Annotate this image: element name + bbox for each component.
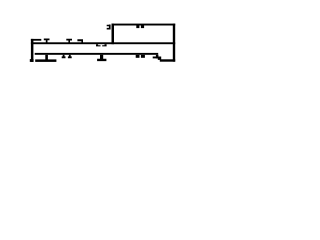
- bottom bar: [35, 59, 56, 62]
- right step stem: [156, 55, 159, 59]
- right shelf: [153, 57, 161, 59]
- sill tooth a1: [62, 55, 66, 58]
- top rail left wall: [112, 24, 115, 45]
- bottom right bar: [160, 59, 175, 61]
- sill line: [35, 53, 159, 55]
- left lip: [31, 39, 41, 41]
- T nub 1: [44, 39, 50, 43]
- sill stem: [45, 55, 48, 60]
- under hook left: [96, 44, 101, 46]
- right wall: [173, 24, 175, 62]
- left end wall: [31, 39, 34, 62]
- right step junction: [158, 57, 161, 60]
- top rail top line: [112, 24, 176, 26]
- top groove tooth b: [141, 25, 144, 28]
- sill tooth a2: [68, 55, 72, 58]
- under hook right: [102, 44, 106, 46]
- left clip hook: [107, 25, 111, 30]
- sill tooth b2: [141, 55, 145, 58]
- T foot: [97, 55, 106, 61]
- bottom left foot: [30, 59, 34, 62]
- main web line: [31, 42, 175, 44]
- T nub 2: [66, 39, 72, 43]
- sill tooth b1: [136, 55, 140, 58]
- top groove tooth a: [136, 25, 139, 28]
- step nub: [77, 39, 83, 42]
